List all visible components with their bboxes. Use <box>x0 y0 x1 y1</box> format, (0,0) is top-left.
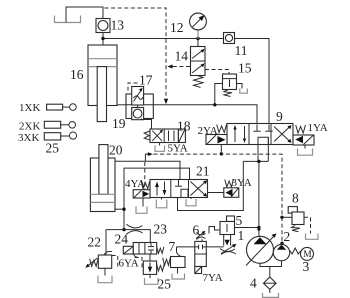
spring of valve 14 <box>194 76 204 88</box>
svg-text:3: 3 <box>303 259 310 274</box>
pilot line (dashed) top <box>105 8 167 99</box>
svg-text:20: 20 <box>109 143 123 158</box>
node valve5-riser <box>257 226 260 229</box>
valve 18 body <box>150 129 178 143</box>
tank under 4YA <box>136 207 147 214</box>
svg-text:16: 16 <box>70 67 84 82</box>
pilot indicator dashed box 17 <box>128 83 138 91</box>
throttle 23 on cyl20 branch <box>127 224 143 234</box>
wire 1YA drain <box>304 145 306 149</box>
cylinder 20 body <box>90 158 115 212</box>
valve 6 body (7YA vertical valve) <box>195 241 207 266</box>
valve 21 center P-T passage <box>181 189 188 197</box>
valve 9 body <box>227 124 293 145</box>
pilot rail takeoff from line1 <box>145 154 150 161</box>
check valve 19 <box>132 108 144 120</box>
valve 14 (two-stage pressure valve) <box>191 47 206 76</box>
node line y229 <box>122 228 125 231</box>
node pilot rail 2YA <box>220 152 223 155</box>
svg-text:4YA: 4YA <box>125 178 145 190</box>
valve 18 solenoid box <box>178 129 185 143</box>
detent dashed box 6YA <box>135 258 142 269</box>
pilot dashed valve14 to valve15 <box>205 70 229 75</box>
wire valve22 feed <box>105 230 107 255</box>
valve 7 pilot line up <box>177 247 182 257</box>
valve 25 spring <box>157 264 165 271</box>
valve 5 left step port <box>209 227 220 234</box>
valve 24 cell1 line <box>138 243 140 255</box>
motor 3 <box>301 247 314 260</box>
valve 9 cell1 arrows <box>234 127 236 142</box>
line1 pressure to valve 21 A-port <box>115 161 180 179</box>
spring of valve 15 <box>224 90 232 97</box>
wire valve 14 feed <box>197 39 199 47</box>
line2 cyl20 rod side to valve 21 <box>124 168 190 230</box>
pump 2 (pilot pump) <box>273 244 289 260</box>
svg-text:6YA: 6YA <box>119 258 139 270</box>
node junction below 13 <box>101 37 104 40</box>
valve 22 box <box>98 255 111 268</box>
valve 9 center P-T passage <box>258 137 268 144</box>
tank under valve 18 <box>155 146 165 152</box>
node at valve15 drop <box>213 103 216 106</box>
svg-text:21: 21 <box>196 164 210 179</box>
svg-text:7: 7 <box>169 239 176 254</box>
tank under 1YA <box>298 149 313 156</box>
node pilot to pump2 <box>280 242 283 245</box>
svg-text:5YA: 5YA <box>168 143 188 155</box>
throttle valve 17 <box>132 87 144 106</box>
pressure gauge 12 <box>190 13 207 30</box>
cylinder 16 body <box>88 45 117 106</box>
valve 25 box <box>143 261 156 274</box>
svg-text:1YA: 1YA <box>308 122 328 134</box>
valve 9 center blocked ports <box>256 125 258 131</box>
tank under valve 15 <box>240 89 248 94</box>
pilot rail dashed 5YA to pumps <box>154 154 283 243</box>
solenoid 1YA box <box>293 135 314 145</box>
valve 5 main box <box>220 222 235 235</box>
arrowhead pilot down <box>164 99 168 105</box>
svg-text:7YA: 7YA <box>203 272 223 284</box>
wire valve22 drain <box>104 268 106 275</box>
wire main line to valve 9 / valve 15 junction <box>153 105 257 124</box>
pilot dashed valve14 left <box>170 66 190 68</box>
svg-text:2YA: 2YA <box>198 125 218 137</box>
wire filter to tank <box>269 289 271 293</box>
solenoid 7YA box <box>195 267 202 274</box>
svg-text:5: 5 <box>236 213 243 228</box>
valve 24 cell2 blocked <box>150 243 152 247</box>
valve 21 cell3 crossed arrows <box>191 182 206 196</box>
wire cyl16 to throttle assembly <box>117 104 126 106</box>
pump 1 riser <box>258 161 260 236</box>
svg-text:24: 24 <box>115 232 129 247</box>
piston lines cylinder 16 <box>88 58 117 60</box>
wire valve5 right to pump riser <box>235 227 259 229</box>
wire pump2 outlet <box>281 243 283 245</box>
valve 8 spring <box>292 226 301 232</box>
filter 4 <box>264 277 277 289</box>
wire pilot supply line y246.5 <box>177 246 224 248</box>
valve 18 tank stub <box>159 143 161 146</box>
pump 1 (variable displacement) <box>247 236 274 263</box>
tank under valve 25 <box>145 278 159 284</box>
solenoid 2YA box <box>206 135 227 145</box>
node pump riser top <box>257 160 260 163</box>
wire tank to filter 13 <box>66 7 103 23</box>
node cyl20 bottom <box>122 208 125 211</box>
valve 21 left spring <box>141 181 150 189</box>
node pump1 top <box>257 228 260 231</box>
solenoid 6YA box (valve 24) <box>123 246 133 254</box>
valve 21 right connector <box>208 192 224 194</box>
check valve 11 <box>224 33 235 44</box>
valve 7 spring <box>163 258 171 266</box>
svg-text:25: 25 <box>158 277 172 292</box>
valve 8 box <box>292 212 304 225</box>
valve 21 body <box>150 180 208 198</box>
wire valve24 to valve25 <box>149 254 151 261</box>
node gauge junction <box>196 37 199 40</box>
valve 24 body <box>133 243 157 255</box>
wire 4YA drain <box>142 198 144 207</box>
piston rod cylinder 20 <box>99 145 108 195</box>
valve 8 pilot cap <box>288 207 297 214</box>
valve 9 left spring <box>217 125 227 133</box>
tank under valve 8 <box>306 234 319 240</box>
wire main pressure top rail <box>103 39 269 124</box>
svg-text:8: 8 <box>292 191 299 206</box>
svg-text:1: 1 <box>238 228 245 243</box>
wire valve15 right drain <box>237 84 243 89</box>
tank under valve 22 <box>98 276 112 283</box>
wire valve18 top jog to assembly <box>142 119 152 130</box>
valve 5 throttle arrow below <box>220 249 236 255</box>
svg-text:3XK: 3XK <box>18 132 39 144</box>
cyl20 bottom port wire <box>115 208 124 210</box>
valve 9 right spring <box>296 125 306 133</box>
throttle of valve 6 <box>197 233 206 242</box>
svg-text:11: 11 <box>235 43 248 58</box>
svg-text:6: 6 <box>193 223 200 238</box>
valve 15 (pilot relief) <box>223 74 237 90</box>
svg-text:9: 9 <box>276 109 283 124</box>
valve 9 P-T legs down to pressure rail <box>258 137 268 161</box>
piston rod cylinder 16 <box>97 67 106 122</box>
valve 21 tank stubs <box>162 198 192 200</box>
piston lines cylinder 20 <box>90 193 115 195</box>
wire filter to cylinder 16 <box>102 33 104 46</box>
svg-text:19: 19 <box>112 116 126 131</box>
svg-text:4: 4 <box>250 276 257 291</box>
solenoid 4YA box <box>133 190 150 198</box>
wire pilot to valve 8 <box>282 216 292 218</box>
wire valve7 drain <box>177 268 179 274</box>
tank under valve21 cell3 <box>186 199 196 206</box>
svg-text:13: 13 <box>111 18 125 33</box>
svg-text:25: 25 <box>46 141 60 156</box>
valve 21 P loop to pump rail <box>178 161 244 210</box>
node pilot to valve 8 <box>280 216 283 219</box>
valve 8 drain dashed <box>304 217 311 233</box>
valve 5 plunger <box>224 235 231 246</box>
valve 21 center blocked port <box>178 180 180 186</box>
svg-text:18: 18 <box>177 119 191 134</box>
pumps suction wires <box>260 261 282 277</box>
valve 22 pilot curve and dashed box <box>104 251 112 255</box>
svg-text:14: 14 <box>175 49 189 64</box>
valve 9 cell3 crossed arrows <box>274 127 290 142</box>
svg-text:2XK: 2XK <box>19 121 40 133</box>
wire valve15 left port to main line <box>215 84 223 105</box>
filter 13 <box>96 19 110 33</box>
valve 24 spring <box>157 247 164 254</box>
valve 18 spring <box>144 131 150 140</box>
svg-text:22: 22 <box>88 235 102 250</box>
svg-text:3YA: 3YA <box>232 177 252 189</box>
wire 2YA pilot drop <box>220 145 222 154</box>
valve 5 top box <box>227 216 235 222</box>
valve 7 box <box>171 257 186 268</box>
tank (top-left reservoir) <box>55 16 81 23</box>
shaft pump2 to motor <box>290 248 301 254</box>
svg-text:2: 2 <box>284 229 291 244</box>
pilot dashed from line1 to 4YA <box>144 162 146 190</box>
wire gauge stem <box>197 31 199 39</box>
svg-text:1XK: 1XK <box>19 102 40 114</box>
throttle/check assembly enclosure <box>126 94 153 119</box>
svg-text:23: 23 <box>154 222 168 237</box>
svg-text:15: 15 <box>238 61 252 76</box>
valve 21 cell1 arrows <box>156 184 158 196</box>
wire clamp branch line <box>106 230 150 243</box>
pressure rail right segment <box>243 160 268 162</box>
tank under valve21 cell1 <box>156 200 167 208</box>
valve 22 spring with arrow <box>90 259 98 267</box>
svg-text:17: 17 <box>139 73 153 88</box>
solenoid 3YA box <box>224 188 239 198</box>
valve 21 right spring <box>225 180 234 187</box>
tank under filter 4 <box>263 293 279 297</box>
tank under valve 7 <box>172 274 185 280</box>
svg-text:12: 12 <box>170 20 184 35</box>
wire valve25 drain <box>149 274 151 278</box>
